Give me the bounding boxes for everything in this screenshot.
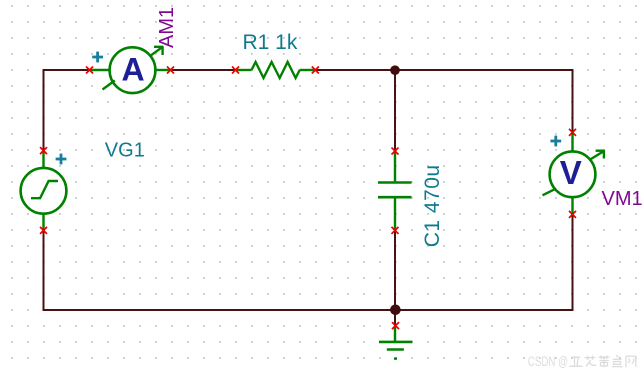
svg-text:CSDN @: CSDN @ bbox=[528, 354, 568, 369]
node A junction dot bbox=[390, 65, 400, 75]
voltmeter VM1 bbox=[543, 134, 605, 215]
pin marker AM1 right bbox=[167, 67, 174, 74]
wire ground stub bbox=[394, 310, 396, 326]
pin marker C1 top bbox=[392, 148, 399, 155]
AM1 plus sign bbox=[92, 52, 103, 63]
svg-text:VG1: VG1 bbox=[105, 139, 145, 161]
resistor R1 bbox=[236, 62, 315, 78]
wire top-left horizontal bbox=[43, 69, 90, 71]
svg-text:A: A bbox=[121, 51, 144, 87]
pin marker VM1 top bbox=[569, 129, 576, 136]
pin marker R1 right bbox=[312, 67, 319, 74]
svg-text:V: V bbox=[560, 154, 582, 191]
pin marker AM1 left bbox=[86, 67, 93, 74]
wire right-top vertical bbox=[572, 69, 574, 132]
svg-text:R1 1k: R1 1k bbox=[243, 31, 298, 54]
svg-text:C1 470u: C1 470u bbox=[421, 164, 444, 247]
VG1 plus sign bbox=[56, 154, 67, 165]
VM1 plus sign bbox=[550, 136, 561, 147]
wire left-bottom vertical bbox=[43, 231, 45, 312]
svg-text:VM1: VM1 bbox=[602, 188, 643, 210]
pin marker ground bbox=[392, 322, 399, 329]
pin marker R1 left bbox=[232, 67, 239, 74]
svg-text:AM1: AM1 bbox=[156, 7, 178, 48]
wire capacitor bottom branch bbox=[394, 230, 396, 310]
ammeter AM1 bbox=[90, 46, 170, 93]
ground bbox=[379, 327, 412, 359]
pin marker VG1 bottom bbox=[40, 227, 47, 234]
voltage generator VG1 bbox=[21, 151, 67, 230]
wire ammeter to resistor bbox=[171, 69, 236, 71]
pin marker VG1 top bbox=[40, 147, 47, 154]
capacitor C1 bbox=[378, 152, 412, 230]
pin marker VM1 bottom bbox=[569, 211, 576, 218]
wire bottom horizontal bbox=[43, 309, 574, 311]
wire resistor to node A bbox=[315, 69, 395, 71]
wire left-top vertical bbox=[43, 69, 45, 151]
wire node A to top-right corner bbox=[395, 69, 574, 71]
pin marker C1 bottom bbox=[392, 227, 399, 234]
wire right-bottom vertical bbox=[572, 214, 574, 311]
wire capacitor top branch bbox=[394, 70, 396, 151]
node B junction dot bbox=[390, 305, 401, 316]
